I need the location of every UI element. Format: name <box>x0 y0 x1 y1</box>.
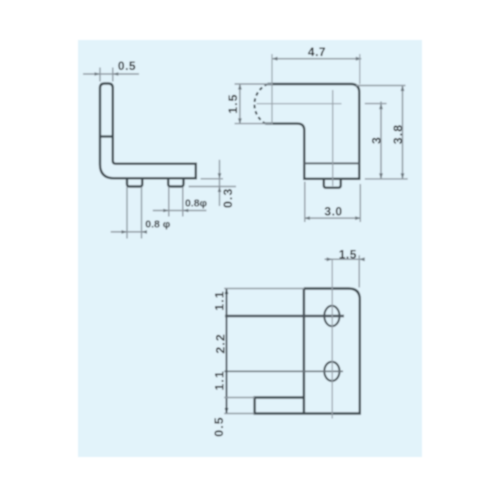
hole 2 <box>324 362 339 381</box>
bracket outline <box>265 84 359 179</box>
vertical center line through holes <box>331 259 333 418</box>
arm center line <box>257 103 342 105</box>
svg-text:2.2: 2.2 <box>214 333 228 353</box>
left chain dim line <box>226 289 228 415</box>
arm end cap (dashed arc) <box>254 84 267 124</box>
svg-text:1.5: 1.5 <box>226 93 240 113</box>
dim 1.5 right ext <box>358 255 360 287</box>
vertical center line <box>332 90 334 186</box>
svg-text:3: 3 <box>370 137 384 144</box>
hole 1 <box>324 306 339 326</box>
svg-text:1.5: 1.5 <box>339 248 357 262</box>
plate outline <box>255 289 360 414</box>
pin below <box>324 179 341 188</box>
dim 3.0 ext lines <box>304 182 306 222</box>
dim 3.8 line <box>402 86 404 179</box>
hole1 center line (dark) <box>225 315 344 317</box>
dim 0.5 arrows <box>95 72 101 76</box>
foot line <box>304 162 359 164</box>
dim 3 ext line <box>365 103 387 105</box>
dim 0.3 extension lines <box>201 178 223 180</box>
svg-text:0.3: 0.3 <box>221 188 235 208</box>
dim 4.7 ext lines <box>271 54 273 125</box>
boss1 extension lines <box>126 187 128 239</box>
dim 1.5 line <box>239 84 241 124</box>
svg-text:4.7: 4.7 <box>308 45 326 59</box>
inner line across leg <box>100 135 113 137</box>
dim 0.8phi (boss1) line <box>111 231 146 233</box>
svg-text:1.1: 1.1 <box>213 370 227 390</box>
svg-text:0.5: 0.5 <box>212 416 226 436</box>
svg-text:3.0: 3.0 <box>324 205 342 219</box>
chain ext top <box>224 288 304 290</box>
chain ext foot top <box>224 397 254 399</box>
blue background panel <box>78 40 422 457</box>
dim 0.5 ticks <box>99 68 101 82</box>
dim 0.3 line <box>219 160 221 206</box>
dim 0.8phi (boss2) line <box>153 210 207 212</box>
chain arrows <box>225 289 229 295</box>
svg-text:0.8φ: 0.8φ <box>185 198 208 210</box>
bracket outline (L-profile) <box>100 84 196 179</box>
boss pin 1 <box>127 178 142 186</box>
hole2 center line <box>224 370 343 372</box>
dim 0.5 line <box>83 73 139 75</box>
svg-text:3.8: 3.8 <box>391 124 405 144</box>
dim 1.5 top line <box>325 258 365 260</box>
svg-text:0.5: 0.5 <box>118 59 136 73</box>
dim 3.0 line <box>304 217 360 219</box>
dim 3 line <box>380 102 382 179</box>
dim 1.5 ext lines <box>235 83 272 85</box>
chain ext bottom <box>224 413 254 415</box>
boss2 extension lines <box>168 187 170 217</box>
dim 4.7 line <box>272 58 361 60</box>
svg-text:0.8 φ: 0.8 φ <box>145 218 171 230</box>
boss pin 2 <box>168 178 183 186</box>
dim 3.8 ext lines <box>356 85 406 87</box>
svg-text:1.1: 1.1 <box>213 290 227 310</box>
